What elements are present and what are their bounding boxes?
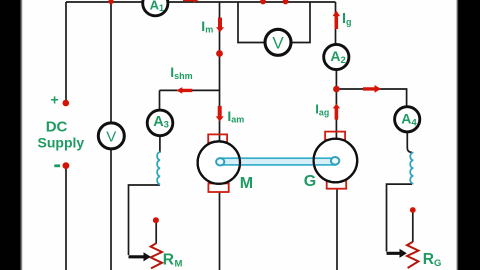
svg-text:+: +: [51, 92, 59, 108]
RM rheostat element: [151, 243, 162, 268]
wire: motor column from top bus to motor brush: [219, 2, 221, 141]
current arrow Ig (up): [333, 11, 340, 30]
svg-text:V: V: [272, 33, 284, 52]
wire: top bus from DC+ column to generator column: [66, 1, 336, 3]
svg-text:Supply: Supply: [38, 134, 85, 150]
voltmeter V2 (top): [265, 29, 291, 55]
wire: motor field coil bottom to RM wiper feed: [129, 185, 161, 255]
wire: branch down to ammeter A3: [159, 90, 161, 110]
junction dot on motor column: [216, 50, 223, 57]
current arrow Iam (down): [216, 106, 224, 121]
generator G body: [314, 139, 358, 183]
wire: motor column below machine to bottom: [219, 192, 221, 270]
ammeter A4: [395, 107, 420, 132]
svg-text:DC: DC: [46, 119, 68, 136]
voltmeter V1 (supply): [98, 123, 124, 149]
junction dot on top bus at voltmeter column: [108, 0, 113, 4]
ammeter A1: [143, 0, 168, 16]
motor M body: [198, 141, 240, 183]
junction dot on top bus right of V2: [283, 0, 289, 4]
RG wiper arrow: [387, 249, 407, 258]
junction dot on top bus left of V2: [260, 0, 266, 4]
generator shunt field coil: [410, 153, 413, 184]
svg-text:G: G: [304, 173, 316, 190]
motor shunt field coil: [157, 152, 160, 184]
label - (DC supply negative): [54, 164, 60, 167]
wire: generator column below machine to bottom: [336, 189, 338, 270]
motor M top brush: [208, 134, 227, 142]
wire: RG rheostat top terminal stub: [412, 212, 414, 242]
RM wiper arrow: [129, 252, 151, 261]
wire: A4 down to generator field coil: [407, 132, 412, 153]
wire: generator field coil bottom to RG wiper feed: [387, 184, 413, 251]
wire: RM rheostat top terminal stub: [155, 222, 157, 244]
DC supply + terminal dot: [63, 100, 70, 107]
DC supply - terminal dot: [63, 162, 70, 169]
generator G body rim over shaft: [314, 139, 358, 183]
RG top terminal dot: [410, 207, 416, 213]
generator G bottom brush: [327, 180, 347, 188]
motor M bottom brush: [208, 183, 228, 192]
current arrow Ishm (left): [176, 87, 192, 94]
wire: DC supply + lead (vertical): [65, 2, 67, 103]
RM top terminal dot: [153, 217, 159, 223]
wire: voltmeter column upper: [110, 2, 112, 124]
wire: Ishm horizontal branch: [160, 89, 220, 91]
current arrow Iag (up): [333, 104, 340, 120]
wire: A2 to junction and generator brush: [335, 70, 337, 139]
current arrow on A4 feed line (right): [363, 85, 381, 93]
ammeter A3: [147, 110, 173, 136]
wire: voltmeter column lower: [110, 149, 112, 270]
svg-text:V: V: [106, 128, 116, 145]
junction dot at A2 branch: [333, 86, 340, 93]
wire: A3 to motor field coil: [159, 136, 161, 153]
wire: junction to A4 horizontal: [336, 89, 406, 107]
current arrow Im (down): [216, 18, 224, 33]
ammeter A2: [324, 44, 349, 69]
svg-text:M: M: [240, 175, 253, 192]
motor M body rim over shaft: [198, 141, 240, 183]
current arrow on top bus: [183, 0, 200, 3]
wire: voltmeter V2 rectangle left side: [238, 2, 265, 43]
RG rheostat element: [407, 242, 418, 268]
wire: voltmeter V2 rectangle right side: [290, 2, 311, 43]
generator G top brush: [325, 132, 345, 140]
shaft coupling M-G: [216, 157, 339, 166]
wire: DC supply - lead down to bottom: [65, 166, 67, 270]
wire: Ig wire from top bus corner to A2: [335, 2, 337, 45]
